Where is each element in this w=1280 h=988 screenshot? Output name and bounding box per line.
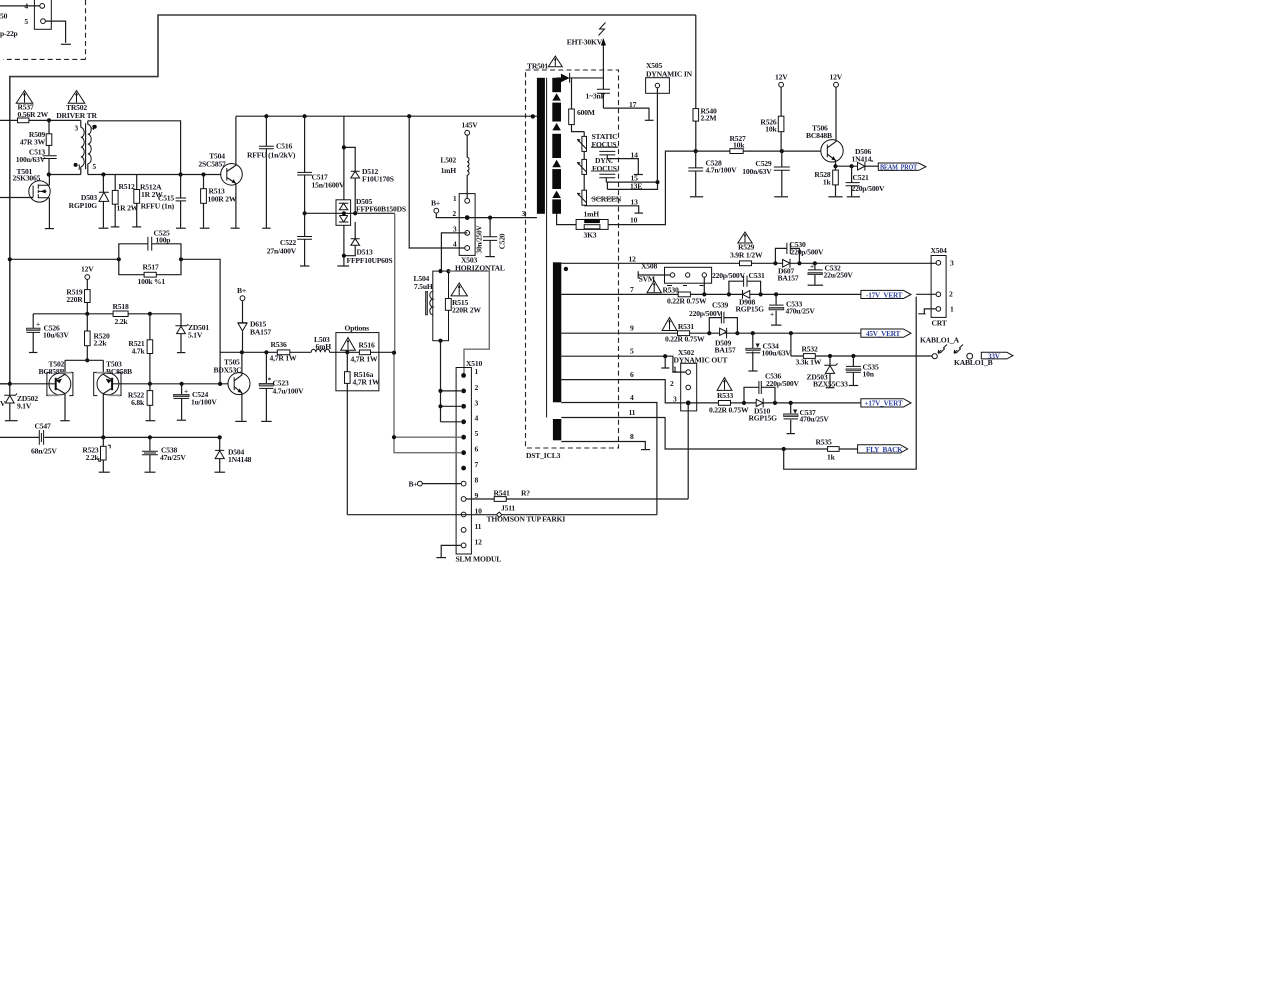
svg-text:5: 5 <box>24 17 28 26</box>
wire X510 pins 2-3-4 column <box>441 341 461 422</box>
svg-text:2.2k: 2.2k <box>115 317 129 326</box>
svg-text:RGP15G: RGP15G <box>736 305 765 314</box>
node <box>342 211 346 215</box>
ground <box>847 196 860 198</box>
ground (tick) <box>177 352 185 354</box>
resistor R515 <box>445 298 481 315</box>
svg-text:J511: J511 <box>501 504 515 513</box>
svg-text:14: 14 <box>631 151 639 160</box>
wire to options column (gray) <box>394 213 396 352</box>
svg-text:4: 4 <box>453 240 457 249</box>
svg-text:C531: C531 <box>749 271 765 280</box>
svg-text:RFFU (1n/2kV): RFFU (1n/2kV) <box>247 151 296 160</box>
warning triangle R530 <box>647 281 661 293</box>
inductor 1mH with resistor 3K3 <box>576 210 608 240</box>
wire 15/13E loop <box>606 182 657 189</box>
svg-text:R532: R532 <box>802 345 818 354</box>
svg-text:R?: R? <box>521 489 530 498</box>
wire 45V to R532 <box>790 333 792 356</box>
ground <box>111 226 120 228</box>
svg-text:EHT-30KV: EHT-30KV <box>567 38 603 47</box>
svg-text:L502: L502 <box>440 156 456 165</box>
svg-text:1mH: 1mH <box>441 166 457 175</box>
wire bottom rail <box>0 436 220 438</box>
svg-text:+: + <box>36 320 40 329</box>
resistor R529 <box>730 243 763 266</box>
wire TR502 pin4 top to C515 junction <box>88 121 181 175</box>
ground <box>176 227 186 229</box>
ground <box>261 420 271 422</box>
capacitor focus1 <box>599 151 615 158</box>
connector X (top-left, partial) <box>24 0 51 29</box>
ground <box>215 471 226 473</box>
wire B+ to pin2 <box>436 213 465 218</box>
inductor L504 with core <box>414 271 449 341</box>
svg-text:4.7n/100V: 4.7n/100V <box>706 166 738 175</box>
resistor R512A <box>134 175 163 227</box>
resistor R518 <box>113 302 129 326</box>
wire R517 feed line <box>10 259 220 384</box>
potentiometer STATIC FOCUS <box>577 132 617 160</box>
ground <box>200 227 210 229</box>
svg-text:100n/63V: 100n/63V <box>742 167 772 176</box>
diode EHT top <box>557 73 604 83</box>
svg-text:1k: 1k <box>823 178 832 187</box>
node <box>179 257 183 261</box>
warning triangle TR501 <box>548 56 562 67</box>
node <box>663 354 667 358</box>
diode pair D505 <box>336 197 406 225</box>
ground <box>132 226 141 228</box>
arrow kablo A <box>938 345 947 354</box>
svg-text:220R 2W: 220R 2W <box>452 306 481 315</box>
svg-text:BEAM_PROT: BEAM_PROT <box>880 163 917 171</box>
svg-text:4.7k: 4.7k <box>132 347 146 356</box>
node <box>438 269 442 273</box>
svg-text:2: 2 <box>949 290 953 299</box>
svg-text:3: 3 <box>950 259 954 268</box>
node <box>392 351 396 355</box>
svg-text:3: 3 <box>475 399 479 408</box>
capacitor C529 <box>742 151 790 196</box>
wire pin3 <box>441 233 467 271</box>
warning triangle R533 <box>717 378 732 391</box>
wire B+ rail <box>220 351 394 353</box>
svg-text:2: 2 <box>475 383 479 392</box>
resistor R516a <box>345 352 380 514</box>
svg-text:11: 11 <box>629 408 636 417</box>
capacitor C535 <box>846 356 879 385</box>
svg-text:R516: R516 <box>359 341 375 350</box>
svg-text:RGP10G: RGP10G <box>69 201 98 210</box>
wire 4 line <box>561 403 657 515</box>
svg-text:RFFU (1n): RFFU (1n) <box>141 202 175 211</box>
ground <box>645 119 654 121</box>
svg-text:68n/25V: 68n/25V <box>31 447 57 456</box>
svg-text:R530: R530 <box>663 286 679 295</box>
svg-text:DRIVER TR: DRIVER TR <box>56 111 97 120</box>
ground <box>828 196 842 198</box>
svg-text:5: 5 <box>475 429 479 438</box>
node <box>735 331 739 335</box>
svg-text:FLY_BACK: FLY_BACK <box>866 446 903 454</box>
svg-text:THOMSON TUP FARKI: THOMSON TUP FARKI <box>487 515 566 524</box>
wire base rail <box>150 383 228 385</box>
resistor R540 <box>693 15 717 151</box>
node <box>759 292 763 296</box>
svg-text:2: 2 <box>452 209 456 218</box>
core line <box>546 78 548 418</box>
ground <box>826 387 835 389</box>
ground <box>231 227 240 229</box>
svg-text:1~3nF: 1~3nF <box>586 92 606 101</box>
svg-text:DST_ICL3: DST_ICL3 <box>526 451 561 460</box>
svg-text:30n/250V: 30n/250V <box>475 225 484 254</box>
node (polarity dot primary) <box>531 114 535 118</box>
capacitor C530 <box>775 240 824 263</box>
wire EHT vertical <box>602 45 604 89</box>
svg-text:6mH: 6mH <box>316 342 332 351</box>
secondary winding bar <box>553 262 561 402</box>
svg-text:12: 12 <box>629 255 637 264</box>
ground <box>748 370 757 372</box>
svg-text:+: + <box>810 262 814 271</box>
svg-text:F10U170S: F10U170S <box>362 175 394 184</box>
svg-text:FFPF10UP60S: FFPF10UP60S <box>347 256 393 265</box>
svg-text:1R 2W: 1R 2W <box>117 204 139 213</box>
resistor R509 <box>20 120 52 155</box>
svg-text:3: 3 <box>453 225 457 234</box>
svg-text:10k: 10k <box>733 141 745 150</box>
node <box>218 435 222 439</box>
jumper J511 <box>487 504 566 524</box>
node <box>656 180 660 184</box>
ground <box>787 433 796 435</box>
diode D504 <box>215 437 252 471</box>
ground (13) <box>635 212 644 214</box>
resistor R526 <box>760 87 783 151</box>
resistor R532 <box>791 345 932 367</box>
svg-text:0.22R 0.75W: 0.22R 0.75W <box>667 297 707 306</box>
ground <box>99 471 110 473</box>
wire 5 line <box>561 356 686 372</box>
svg-text:13E: 13E <box>630 182 642 191</box>
node <box>218 382 222 386</box>
node <box>686 401 691 406</box>
svg-text:R518: R518 <box>113 302 129 311</box>
capacitor C531 <box>712 271 765 295</box>
svg-text:BC858B: BC858B <box>39 367 65 376</box>
svg-text:50: 50 <box>0 12 8 21</box>
capacitor 1~3nF <box>586 89 611 108</box>
ground <box>177 419 186 421</box>
resistor R523 <box>82 437 110 471</box>
node <box>85 312 89 316</box>
ground <box>690 196 703 198</box>
svg-text:10u/63V: 10u/63V <box>43 331 69 340</box>
transistor T506 BC848B <box>806 87 843 166</box>
node <box>201 172 205 176</box>
capacitor C521 <box>846 166 885 196</box>
wire flyback to X504 pin2 <box>784 297 917 470</box>
svg-text:12: 12 <box>475 538 483 547</box>
svg-text:6: 6 <box>630 370 634 379</box>
svg-text:1: 1 <box>673 365 677 374</box>
svg-text:1N414ₒ: 1N414ₒ <box>852 154 875 163</box>
connector X504 CRT <box>931 246 955 328</box>
svg-text:470u/25V: 470u/25V <box>800 415 830 424</box>
svg-text:TR501: TR501 <box>527 62 548 71</box>
svg-text:B+: B+ <box>431 199 440 208</box>
svg-text:DYNAMIC IN: DYNAMIC IN <box>646 70 693 79</box>
svg-text:12V: 12V <box>775 73 788 82</box>
node <box>833 164 837 168</box>
ground <box>774 196 788 198</box>
capacitor C513 <box>16 148 57 175</box>
capacitor C520 <box>475 218 507 257</box>
svg-text:5: 5 <box>630 347 634 356</box>
transistor T503 BC858B <box>94 360 150 438</box>
node <box>8 257 12 261</box>
transformer TR502 <box>56 103 97 175</box>
node <box>707 331 711 335</box>
wire static focus wiper <box>591 146 618 148</box>
warning triangle R531 <box>662 318 677 331</box>
svg-text:1k: 1k <box>827 453 836 462</box>
diode D615 <box>238 301 271 353</box>
node <box>438 339 442 343</box>
ground <box>29 352 38 354</box>
ground <box>45 228 54 230</box>
svg-text:600M: 600M <box>577 108 595 117</box>
svg-text:11: 11 <box>475 522 482 531</box>
ground <box>436 557 446 559</box>
wire <box>236 115 537 117</box>
wire gray to X510 pin1 <box>449 271 490 373</box>
zener ZD501 <box>175 323 209 352</box>
svg-text:3: 3 <box>522 209 526 218</box>
svg-text:0.22R 0.75W: 0.22R 0.75W <box>665 335 705 344</box>
svg-text:12V: 12V <box>81 265 94 274</box>
stub 5 <box>661 356 669 368</box>
ground <box>771 324 782 326</box>
connector X508 SVM <box>638 262 711 295</box>
svg-text:C547: C547 <box>35 422 51 431</box>
svg-text:C521: C521 <box>853 173 869 182</box>
svg-text:470u/25V: 470u/25V <box>786 307 816 316</box>
wire dyn focus wiper <box>591 170 618 172</box>
flag 33V <box>981 352 1013 360</box>
resistor R527 <box>696 134 782 154</box>
svg-text:10k: 10k <box>765 125 777 134</box>
capacitor C538 <box>142 437 186 471</box>
capacitor C536 <box>744 372 800 403</box>
wire X504 pin2 <box>916 293 936 295</box>
node <box>407 114 411 118</box>
flag BEAM_PROT <box>878 163 926 171</box>
warning triangle R515 <box>451 283 467 296</box>
wire 9 line <box>561 332 861 334</box>
ground <box>337 265 349 267</box>
node <box>789 331 793 335</box>
node <box>851 354 855 358</box>
svg-text:Options: Options <box>345 324 370 333</box>
svg-text:22u/250V: 22u/250V <box>824 271 854 280</box>
terminal 12V (R526) <box>775 73 788 88</box>
svg-text:BC848B: BC848B <box>806 131 832 140</box>
wire 17 line <box>603 108 649 120</box>
svg-text:R531: R531 <box>678 322 694 331</box>
arrow EHT <box>601 38 606 46</box>
node <box>850 164 854 168</box>
wire X504 pin1 to tick <box>918 309 936 314</box>
ground (8) <box>641 449 650 451</box>
resistor R516 <box>351 341 378 364</box>
node <box>780 149 784 153</box>
resistor R535 <box>816 438 858 462</box>
svg-text:KABLO1_A: KABLO1_A <box>920 336 960 345</box>
svg-text:8: 8 <box>630 432 634 441</box>
capacitor C526 <box>26 314 69 352</box>
svg-text:4: 4 <box>475 414 479 423</box>
svg-text:3: 3 <box>673 395 677 404</box>
box Options <box>336 333 379 391</box>
flag -17V_VERT <box>861 290 911 299</box>
wire T502/T503 base tie <box>65 360 103 374</box>
diode D510 <box>749 398 778 422</box>
diode D509 <box>715 328 736 355</box>
resistor 600M <box>569 78 595 132</box>
node <box>438 404 442 408</box>
inductor L503 <box>311 335 331 352</box>
capacitor C532 <box>808 262 854 285</box>
capacitor C534 <box>746 333 792 370</box>
terminal KABLO1_B <box>967 353 973 359</box>
resistor R520 <box>85 314 110 361</box>
svg-text:1: 1 <box>453 194 457 203</box>
svg-text:220p/500V: 220p/500V <box>712 271 746 280</box>
resistor R533 <box>691 391 861 415</box>
connector X503 HORIZONTAL <box>452 194 505 273</box>
flag 45V_VERT <box>861 329 911 338</box>
wire emitter row <box>836 165 858 167</box>
svg-text:R536: R536 <box>271 340 287 349</box>
node <box>438 389 442 393</box>
svg-text:9: 9 <box>630 324 634 333</box>
node <box>101 172 105 176</box>
resistor R521 <box>128 314 152 384</box>
terminal 145V <box>462 121 479 136</box>
svg-text:CRT: CRT <box>932 319 947 328</box>
svg-text:R533: R533 <box>717 391 733 400</box>
svg-text:1mH: 1mH <box>584 210 600 219</box>
capacitor C528 <box>688 151 737 196</box>
node <box>702 292 706 296</box>
ground <box>99 227 109 229</box>
wire 7 line <box>561 293 861 295</box>
terminal 12V (T506) <box>830 73 843 88</box>
svg-text:B+: B+ <box>237 286 246 295</box>
svg-text:100p: 100p <box>156 236 171 245</box>
resistor R522 <box>128 384 153 420</box>
svg-text:SLM MODUL: SLM MODUL <box>456 555 502 564</box>
diode D607 <box>778 259 799 283</box>
wire pin5 to ground <box>45 21 65 43</box>
svg-text:SVM: SVM <box>639 275 655 284</box>
svg-text:6: 6 <box>475 445 479 454</box>
wire D512 branch <box>344 116 355 265</box>
connector X510 <box>456 359 502 564</box>
connector X505 DYNAMIC IN <box>646 61 693 182</box>
svg-text:+: + <box>184 387 188 396</box>
svg-text:0.56R 2W: 0.56R 2W <box>18 110 49 119</box>
node <box>148 382 152 386</box>
svg-text:4: 4 <box>630 393 634 402</box>
diode D908 <box>736 290 765 314</box>
node <box>85 358 89 362</box>
svg-text:2: 2 <box>670 379 674 388</box>
transistor T502 BC858B <box>0 360 73 421</box>
resistor R536 <box>270 340 297 363</box>
svg-text:33V: 33V <box>988 352 1001 360</box>
node <box>342 254 346 258</box>
svg-text:BA157: BA157 <box>778 274 799 283</box>
warning triangle TR502 <box>68 91 85 104</box>
svg-text:4,7R 1W: 4,7R 1W <box>270 354 297 363</box>
node <box>774 292 778 296</box>
wire pin5 row to T504 base <box>88 174 221 176</box>
svg-text:3.3k 1W: 3.3k 1W <box>796 358 822 367</box>
wire 14 line <box>607 159 638 175</box>
wire 13 line <box>584 206 639 213</box>
terminal B+ (D615) <box>237 286 246 301</box>
diode D506 <box>852 147 879 171</box>
svg-text:1u/100V: 1u/100V <box>191 398 217 407</box>
resistor R519 <box>66 279 90 313</box>
ground <box>146 420 156 422</box>
resistor R528 <box>814 166 838 196</box>
svg-text:RGP15G: RGP15G <box>749 414 778 423</box>
node <box>117 257 121 261</box>
node <box>303 211 307 215</box>
node <box>180 382 184 386</box>
capacitor C522 <box>267 213 312 265</box>
node <box>773 261 777 265</box>
wire screen wiper <box>591 197 618 199</box>
capacitor C525 <box>119 229 181 260</box>
node <box>47 118 51 122</box>
svg-text:8: 8 <box>475 476 479 485</box>
wire 12 line <box>561 262 936 264</box>
connector X502 DYNAMIC OUT <box>670 348 727 499</box>
svg-text:220R: 220R <box>66 295 83 304</box>
node <box>264 350 268 354</box>
resistor R517 <box>119 259 181 286</box>
svg-text:220p/500V: 220p/500V <box>766 379 800 388</box>
node <box>797 261 801 265</box>
transistor T505 BDX53C <box>214 352 251 421</box>
svg-text:+17V_VERT: +17V_VERT <box>865 400 903 408</box>
node <box>488 216 492 220</box>
svg-text:4,7R 1W: 4,7R 1W <box>353 378 380 387</box>
svg-text:1N4148: 1N4148 <box>228 455 252 464</box>
node (polarity dot) <box>564 267 568 271</box>
svg-text:45V_VERT: 45V_VERT <box>866 330 900 338</box>
wire 6 line <box>561 380 686 403</box>
node <box>342 145 346 149</box>
node <box>828 354 832 358</box>
node <box>773 401 777 405</box>
